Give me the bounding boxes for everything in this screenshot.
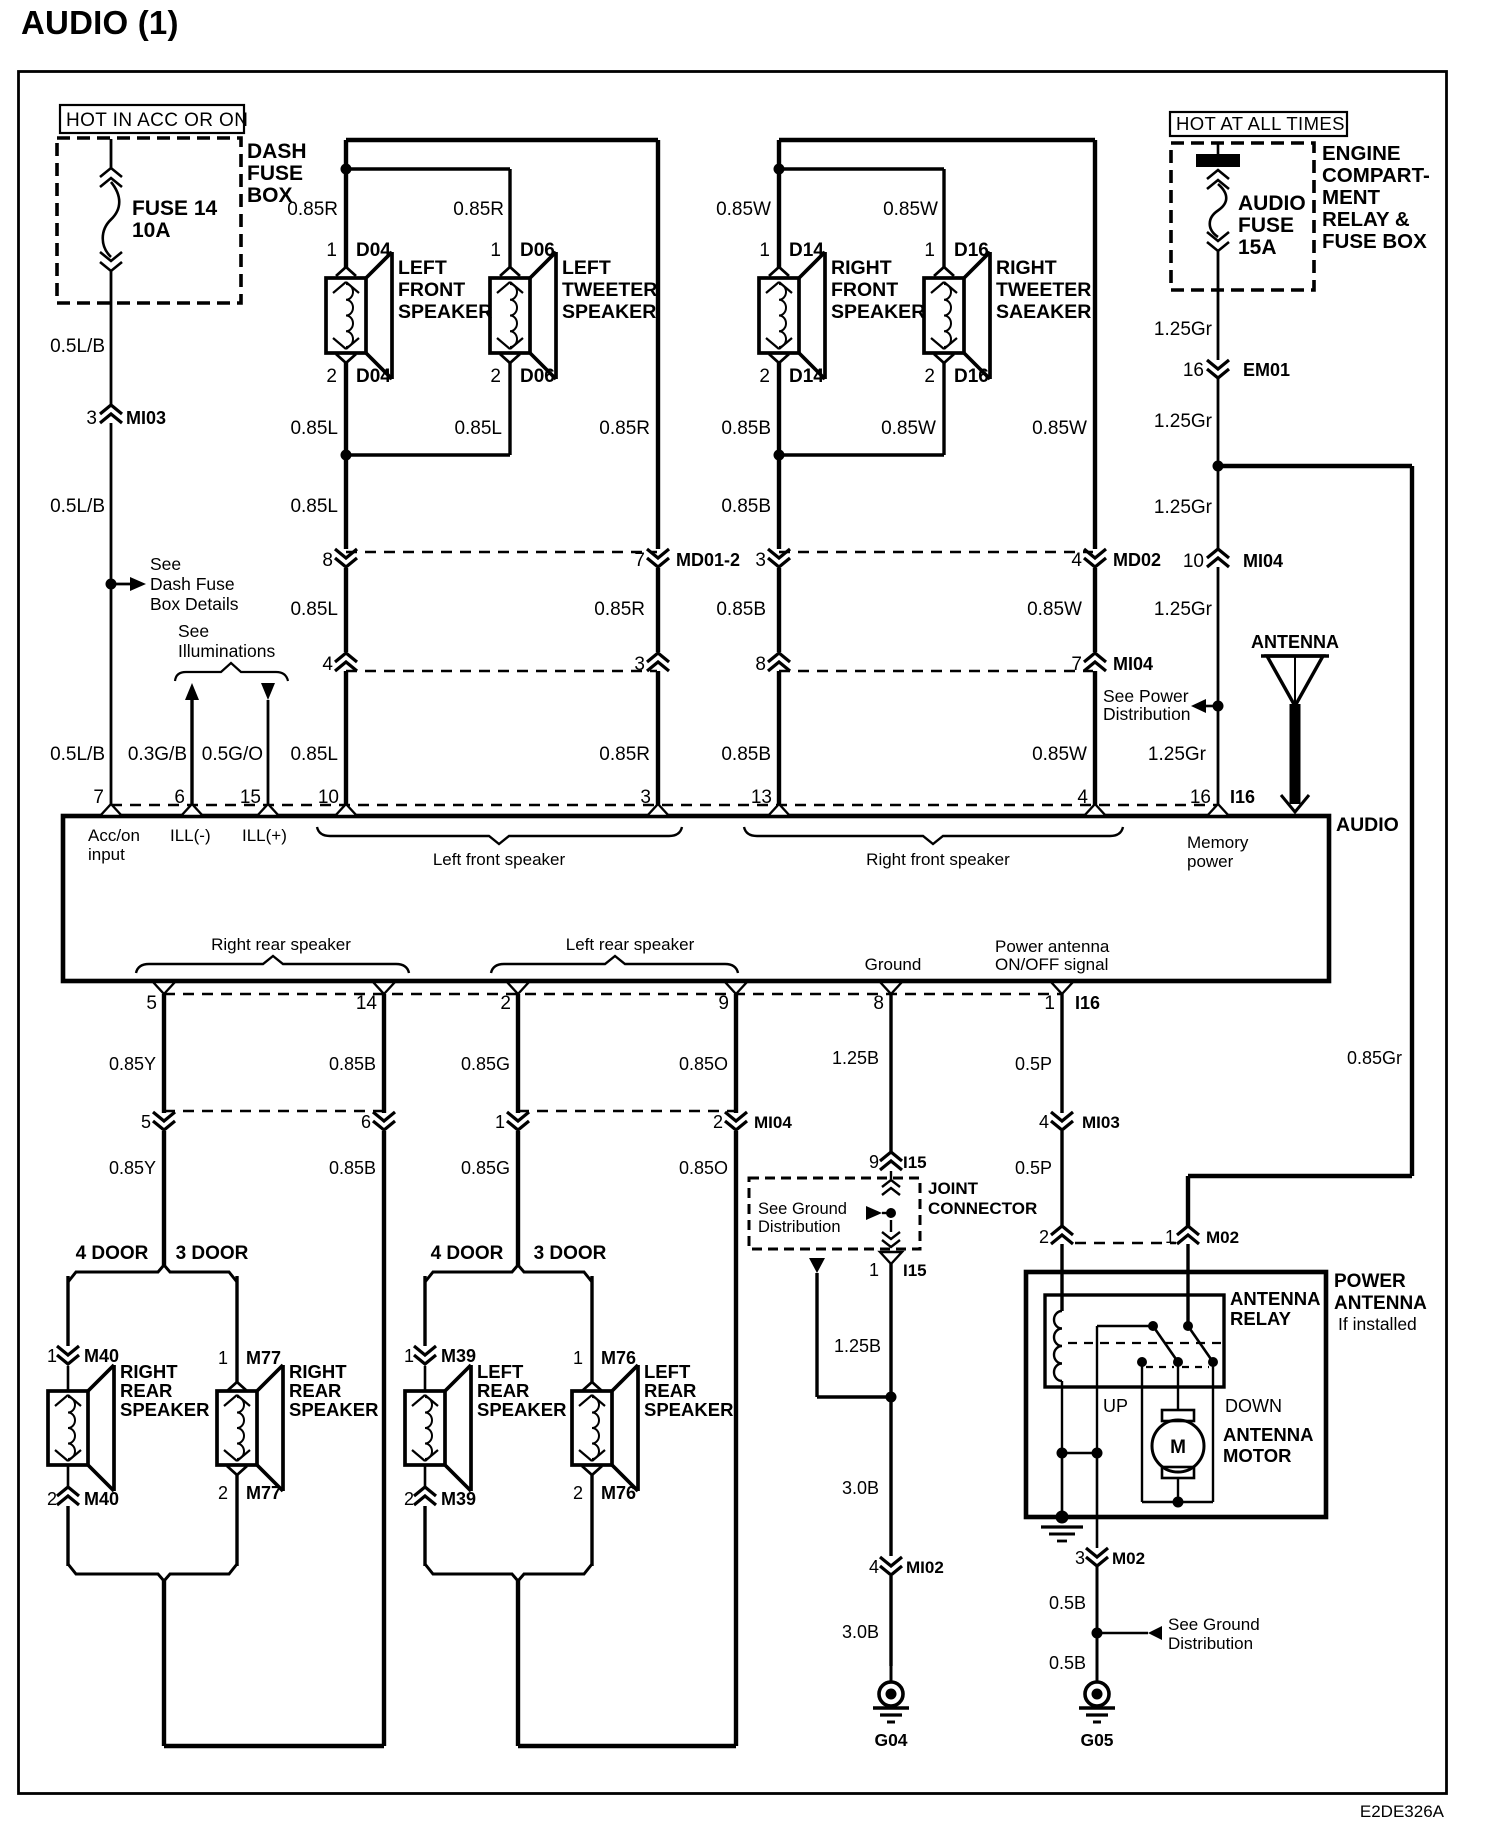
svg-text:2: 2 [404,1489,414,1509]
label 1.25Gr (2) [1154,411,1213,432]
connector D16 pin2 [924,354,988,387]
speaker D04 left front speaker [326,252,392,379]
merge left rear [425,1564,592,1581]
junction dots up row [1057,1448,1103,1459]
svg-text:0.85Y: 0.85Y [109,1158,156,1178]
label RIGHT REAR SPEAKER (M77) [289,1361,378,1420]
big dot box bottom [1056,1511,1069,1524]
svg-text:ENGINE: ENGINE [1322,142,1401,165]
connector EM01 pin16 [1183,360,1290,381]
svg-text:2: 2 [500,993,511,1014]
brace Left rear speaker [491,935,738,973]
relay contact dots top [1148,1321,1193,1331]
svg-text:0.5B: 0.5B [1049,1593,1086,1613]
svg-text:3: 3 [755,550,766,571]
svg-text:Left front speaker: Left front speaker [433,850,566,869]
wire up to M02-3 [1096,1453,1099,1548]
label 0.85W (row4) [1027,599,1082,620]
connector M76 pin2 [573,1466,636,1503]
wires MI04 row to audio box [346,671,1095,805]
svg-text:M02: M02 [1206,1228,1239,1247]
label 3 DOOR (left rear) [534,1243,607,1264]
junction dot see ground dist [1092,1626,1163,1640]
label ENGINE COMPARTMENT RELAY & FUSE BOX [1322,142,1430,253]
svg-text:See Ground: See Ground [1168,1615,1260,1634]
svg-text:0.85R: 0.85R [287,199,338,220]
ground G04 [873,1662,909,1750]
label Acc/on input [88,826,140,864]
connector MI04 pin6 [361,1112,395,1132]
wire pin14 down [382,994,386,1113]
label AUDIO FUSE 15A [1238,192,1306,259]
wire MI04-10 down [1217,567,1220,805]
svg-text:REAR: REAR [477,1380,529,1401]
antenna symbol [1251,632,1339,812]
wire M02-1 into box [1186,1244,1189,1326]
svg-text:LEFT: LEFT [398,257,447,279]
connector M02 pin1 [1165,1226,1239,1247]
relay dashed link [1068,1342,1222,1344]
joint connector box (dashed) [749,1178,920,1249]
svg-text:BOX: BOX [247,184,293,207]
connector MD02 pin3 [755,549,790,571]
label 0.85B (1) [329,1054,376,1074]
audio top pin 15 [240,787,279,816]
wire M77 to merge [235,1475,238,1566]
svg-text:0.85R: 0.85R [453,199,504,220]
svg-text:2: 2 [490,366,501,387]
connector MI04 pin10 [1183,549,1283,572]
svg-text:1: 1 [869,1260,879,1280]
label 1.25B (1) [832,1048,879,1068]
svg-text:M76: M76 [601,1483,636,1503]
dashed row audio top pins [111,804,1218,806]
svg-text:SPEAKER: SPEAKER [831,301,925,323]
svg-text:Power antenna: Power antenna [995,937,1110,956]
svg-text:4: 4 [869,1557,879,1577]
relay L wire [1097,1326,1153,1453]
connector MD02 pin4 [1071,549,1161,571]
joint connector exit terminal [880,1252,902,1264]
svg-text:16: 16 [1190,787,1211,808]
wire audio fuse down [1217,251,1220,360]
label 1.25Gr (1) [1154,319,1213,340]
svg-text:0.85Gr: 0.85Gr [1347,1048,1402,1068]
label 0.5B (2) [1049,1653,1086,1673]
wire M40 branch [66,1276,69,1346]
speaker D14 right front speaker [759,252,825,379]
svg-text:COMPART-: COMPART- [1322,164,1430,187]
wire branch to junction [817,1273,891,1397]
label 0.85L (row4) [290,599,338,620]
svg-text:10A: 10A [132,219,171,242]
svg-text:Left rear speaker: Left rear speaker [566,935,695,954]
wire MI02 to G04 [889,1576,892,1666]
svg-text:3: 3 [1075,1548,1085,1568]
svg-text:15A: 15A [1238,236,1277,259]
wire I15 down [889,1264,892,1556]
svg-text:8: 8 [873,993,884,1014]
wire EM01 to junction [1217,379,1220,549]
brace illumination [175,663,288,681]
svg-text:D04: D04 [356,366,391,387]
wire pin8 down [889,994,892,1152]
svg-text:7: 7 [93,787,104,808]
svg-text:M: M [1170,1437,1186,1458]
svg-text:0.85W: 0.85W [1032,744,1087,765]
note See Ground Distribution (G05) [1168,1615,1260,1653]
svg-text:MD01-2: MD01-2 [676,550,740,570]
svg-text:13: 13 [751,787,772,808]
svg-text:M02: M02 [1112,1549,1145,1568]
label LEFT TWEETER SPEAKER [562,257,657,323]
dashed row M02 [1075,1242,1176,1244]
connector MI04 pin7 [1071,653,1153,675]
label 1.25B (2) [834,1336,881,1356]
svg-text:2: 2 [924,366,935,387]
svg-text:0.85O: 0.85O [679,1158,728,1178]
connector MI03 pin4 [1039,1112,1120,1132]
svg-text:ANTENNA: ANTENNA [1223,1424,1313,1445]
wire pin5 to split [162,1131,166,1266]
svg-text:0.85B: 0.85B [716,599,766,620]
svg-text:FRONT: FRONT [398,279,465,301]
svg-text:M40: M40 [84,1346,119,1366]
wire coil to box bottom [1061,1453,1064,1517]
svg-text:14: 14 [356,993,378,1014]
svg-text:MI04: MI04 [1113,654,1153,674]
svg-text:1: 1 [47,1346,57,1366]
label I15 pin1 [869,1260,927,1280]
antenna relay box [1045,1295,1224,1387]
label 0.85R (row4) [594,599,645,620]
svg-text:5: 5 [146,993,157,1014]
svg-text:E2DE326A: E2DE326A [1360,1802,1445,1821]
label 0.85W (D16) [883,199,938,220]
svg-text:AUDIO: AUDIO [1336,814,1399,836]
svg-text:RIGHT: RIGHT [120,1361,178,1382]
label ANTENNA RELAY [1230,1288,1320,1329]
svg-text:Right front speaker: Right front speaker [866,850,1010,869]
svg-text:See Ground: See Ground [758,1200,847,1218]
label 0.85Y (2) [109,1158,156,1178]
dashed row MI04 b [779,670,1093,672]
svg-text:0.85B: 0.85B [721,496,771,517]
svg-text:MI04: MI04 [1243,551,1283,571]
junction dot 0.85Gr branch [1213,461,1224,472]
svg-text:HOT IN ACC OR ON: HOT IN ACC OR ON [66,110,248,131]
svg-text:1: 1 [759,240,770,261]
connector MI04 pin4 [322,653,357,675]
svg-text:0.85O: 0.85O [679,1054,728,1074]
svg-text:0.5P: 0.5P [1015,1054,1052,1074]
connector M77 pin1 [218,1348,281,1391]
svg-text:CONNECTOR: CONNECTOR [928,1199,1037,1218]
wire pin14 long down [382,1131,386,1746]
svg-text:Distribution: Distribution [758,1218,841,1236]
label 1.25Gr (5) [1148,744,1207,765]
svg-text:Dash Fuse: Dash Fuse [150,574,235,594]
wire 0.85Gr branch [1188,466,1412,1226]
svg-text:0.85W: 0.85W [716,199,771,220]
junction dot D14/D16 return [774,450,785,461]
svg-text:0.3G/B: 0.3G/B [128,744,187,765]
svg-text:3: 3 [86,408,97,429]
connector D06 pin1 [490,240,554,276]
wire motor left [1141,1362,1143,1502]
connector I15 pin9 [869,1152,927,1172]
svg-text:0.85R: 0.85R [599,744,650,765]
svg-text:FUSE 14: FUSE 14 [132,197,218,220]
svg-text:1.25B: 1.25B [834,1336,881,1356]
dashed row audio bottom pins [164,993,1062,995]
speaker M77 right rear speaker [217,1365,283,1491]
speaker M40 right rear speaker [48,1365,114,1491]
relay blade 2 [1188,1326,1213,1362]
label 0.85B (2) [329,1158,376,1178]
dash fuse box (dashed) [57,138,241,303]
svg-text:10: 10 [318,787,339,808]
label 1.25Gr (4) [1154,599,1213,620]
wire motor bottom [1177,1478,1179,1502]
svg-text:1: 1 [924,240,935,261]
svg-text:8: 8 [755,654,766,675]
junction dot D14/D16 feed [774,164,785,175]
wire M76 branch [590,1276,593,1383]
speaker D16 right tweeter speaker [924,252,990,379]
svg-text:RIGHT: RIGHT [996,257,1057,279]
speaker M39 left rear speaker [405,1365,471,1491]
svg-text:REAR: REAR [120,1380,172,1401]
svg-text:8: 8 [322,550,333,571]
brace Right rear speaker [136,935,409,973]
svg-text:2: 2 [47,1489,57,1509]
svg-text:REAR: REAR [289,1380,341,1401]
svg-text:I16: I16 [1075,993,1100,1013]
dashed row MD01-2 [346,551,657,553]
svg-text:MI04: MI04 [754,1113,792,1132]
audio top pin 10 [318,787,357,816]
wire D06 feed [346,169,510,268]
label Power antenna ON/OFF signal [995,937,1110,974]
audio top pin 13 [751,787,790,816]
svg-text:See Power: See Power [1103,686,1189,706]
svg-text:0.85W: 0.85W [1027,599,1082,620]
svg-text:0.85R: 0.85R [594,599,645,620]
label 3 DOOR (right rear) [176,1243,249,1264]
title AUDIO (1) [21,4,179,41]
svg-text:1.25Gr: 1.25Gr [1154,319,1213,340]
svg-text:1: 1 [1044,993,1055,1014]
connector MI04 pin1 [495,1112,529,1132]
svg-text:0.85L: 0.85L [454,418,502,439]
fusible link bar [1196,143,1240,167]
arrow ILL(+) down [261,683,275,805]
svg-text:0.85B: 0.85B [721,418,771,439]
label 0.85L (row2 b) [454,418,502,439]
connector M40 pin1 [47,1346,119,1366]
label 0.85G (1) [461,1054,510,1074]
svg-text:ILL(-): ILL(-) [170,826,211,845]
label ILL(-) [170,826,211,845]
svg-text:Distribution: Distribution [1103,704,1191,724]
svg-text:1: 1 [218,1348,228,1368]
svg-text:7: 7 [634,550,645,571]
svg-text:SPEAKER: SPEAKER [120,1399,209,1420]
svg-text:ILL(+): ILL(+) [242,826,287,845]
svg-text:4: 4 [322,654,333,675]
svg-text:0.5G/O: 0.5G/O [202,744,263,765]
label Ground [865,955,922,974]
svg-text:M39: M39 [441,1346,476,1366]
svg-text:4 DOOR: 4 DOOR [76,1243,149,1264]
wire M02-2 into box [1060,1244,1063,1311]
label JOINT CONNECTOR [928,1179,1037,1218]
power antenna box [1026,1272,1326,1517]
label 1.25Gr (3) [1154,497,1213,518]
connector D14 pin2 [759,354,824,387]
svg-text:3: 3 [634,654,645,675]
audio bottom pin 14 [356,982,395,1014]
label LEFT FRONT SPEAKER [398,257,492,323]
svg-text:Ground: Ground [865,955,922,974]
connector MI03 pin 3 [86,405,166,429]
brace Right front speaker [744,827,1123,869]
svg-text:0.85B: 0.85B [329,1054,376,1074]
label 0.85Gr [1347,1048,1402,1068]
dashed row MD02 [779,551,1093,553]
label LEFT REAR SPEAKER (M39) [477,1361,566,1420]
svg-text:16: 16 [1183,360,1204,381]
svg-text:I16: I16 [1230,787,1255,807]
label AUDIO [1336,814,1399,836]
label Memory power [1187,833,1249,871]
svg-text:I15: I15 [903,1153,927,1172]
wire pin9 down [734,994,738,1113]
label 0.5G/O [202,744,263,765]
svg-text:0.85W: 0.85W [1032,418,1087,439]
svg-text:3: 3 [640,787,651,808]
label 0.85R (row2 c) [599,418,650,439]
connector D14 pin1 [759,240,824,276]
svg-text:Acc/on: Acc/on [88,826,140,845]
wire M77 branch [235,1276,238,1383]
diagram code E2DE326A [1360,1802,1445,1821]
label 0.85B (row4) [716,599,766,620]
audio top pin 6 [174,787,203,816]
label 0.5P (2) [1015,1158,1052,1178]
svg-text:TWEETER: TWEETER [996,279,1091,301]
svg-text:SPEAKER: SPEAKER [477,1399,566,1420]
label RIGHT REAR SPEAKER (M40) [120,1361,209,1420]
svg-text:1: 1 [326,240,337,261]
svg-text:1.25Gr: 1.25Gr [1154,497,1213,518]
label 0.3G/B [128,744,187,765]
label 4 DOOR (right rear) [76,1243,149,1264]
label 0.85W (row2 c) [1032,418,1087,439]
engine compartment fuse box (dashed) [1171,143,1314,290]
relay blade 1 [1153,1326,1178,1362]
wire MI03-4 down [1060,1131,1063,1226]
svg-text:ON/OFF signal: ON/OFF signal [995,955,1108,974]
audio unit box [63,816,1329,981]
note See Dash Fuse Box Details [150,554,239,614]
svg-text:0.85L: 0.85L [290,744,338,765]
svg-text:REAR: REAR [644,1380,696,1401]
svg-text:1: 1 [495,1112,505,1132]
svg-text:RELAY &: RELAY & [1322,208,1410,231]
speaker D06 left tweeter speaker [490,252,556,379]
svg-text:0.5B: 0.5B [1049,1653,1086,1673]
wires MD row to MI04 row [346,568,1095,652]
junction dot see dash fuse [106,577,147,591]
svg-text:Distribution: Distribution [1168,1634,1253,1653]
svg-text:3 DOOR: 3 DOOR [176,1243,249,1264]
svg-text:0.85W: 0.85W [883,199,938,220]
svg-text:MD02: MD02 [1113,550,1161,570]
svg-text:0.85G: 0.85G [461,1158,510,1178]
relay coil [1054,1311,1062,1381]
junction dot D04/D06 feed [341,164,352,175]
connector D04 pin1 [326,240,391,276]
motor M antenna motor [1152,1410,1204,1478]
svg-text:LEFT: LEFT [644,1361,691,1382]
label POWER ANTENNA If installed [1334,1271,1427,1334]
svg-text:1: 1 [1165,1227,1175,1247]
joint connector bottom caret [882,1220,900,1247]
svg-text:1.25Gr: 1.25Gr [1148,744,1207,765]
joint connector top caret [882,1171,900,1195]
wire M39 to merge [424,1465,427,1566]
svg-text:2: 2 [218,1483,228,1503]
svg-text:FUSE BOX: FUSE BOX [1322,230,1427,253]
svg-text:SAEAKER: SAEAKER [996,301,1091,323]
svg-text:See: See [150,554,181,574]
svg-text:G04: G04 [874,1730,907,1750]
svg-text:SPEAKER: SPEAKER [644,1399,733,1420]
wire motor rail [1142,1497,1213,1508]
wire M39 chev to body [424,1366,427,1390]
svg-text:MENT: MENT [1322,186,1381,209]
label 3.0B (1) [842,1478,879,1498]
connector MI04 pin5 [141,1112,175,1132]
label 0.85R (D04) [287,199,338,220]
label 0.85O (1) [679,1054,728,1074]
brace Left front speaker [317,827,682,869]
wire RF bus top [779,140,1095,549]
svg-text:AUDIO (1): AUDIO (1) [21,4,179,41]
audio top pin 3 [640,787,669,816]
svg-text:2: 2 [713,1112,723,1132]
audio bottom pin 2 [500,982,529,1014]
svg-text:2: 2 [326,366,337,387]
svg-text:1: 1 [573,1348,583,1368]
svg-text:DASH: DASH [247,140,307,163]
svg-text:0.5L/B: 0.5L/B [50,744,105,765]
connector D16 pin1 [924,240,988,276]
note See Ground Distribution (joint) [758,1200,847,1236]
svg-text:4: 4 [1071,550,1082,571]
svg-text:1.25Gr: 1.25Gr [1154,599,1213,620]
svg-text:Illuminations: Illuminations [178,641,276,661]
svg-text:4 DOOR: 4 DOOR [431,1243,504,1264]
svg-text:5: 5 [141,1112,151,1132]
wire motor right DOWN [1212,1362,1214,1502]
relay bottom dashed [1146,1366,1209,1368]
svg-text:HOT AT ALL TIMES: HOT AT ALL TIMES [1176,113,1345,134]
split right rear [68,1265,237,1282]
svg-text:EM01: EM01 [1243,360,1290,380]
